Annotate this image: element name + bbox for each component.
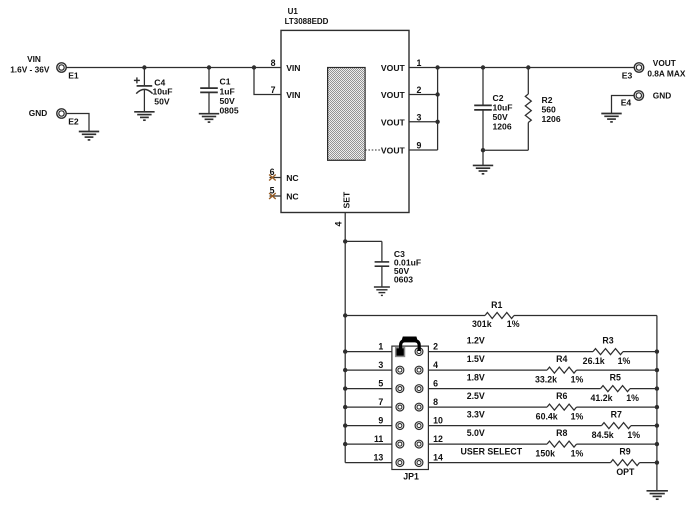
label C4 value: [153, 77, 173, 106]
svg-text:C1: C1: [220, 77, 231, 87]
svg-text:50V: 50V: [220, 96, 236, 106]
op-amp U1 LT3088EDD body: [281, 30, 409, 212]
svg-text:3: 3: [378, 360, 383, 370]
junction left bus row 3: [343, 386, 347, 390]
svg-text:LT3088EDD: LT3088EDD: [285, 17, 329, 26]
pin 6 NC stub: [270, 177, 282, 179]
svg-text:60.4k: 60.4k: [536, 412, 558, 422]
junction C2 bottom: [481, 148, 485, 152]
svg-text:3: 3: [417, 112, 422, 122]
svg-text:84.5k: 84.5k: [592, 430, 614, 440]
junction right bus row 3: [655, 386, 659, 390]
ground at C4: [134, 112, 154, 120]
connector JP1 body: [392, 346, 429, 469]
junction at R2 tap: [526, 65, 530, 69]
svg-text:VOUT: VOUT: [381, 63, 406, 73]
svg-text:50V: 50V: [493, 112, 509, 122]
svg-text:3.3V: 3.3V: [467, 410, 485, 420]
resistor R9: [611, 460, 640, 466]
wire row 6 right of R8: [577, 443, 657, 445]
wire SET net left bus: [344, 213, 346, 463]
svg-text:1: 1: [417, 58, 422, 68]
svg-text:USER SELECT: USER SELECT: [461, 447, 523, 457]
svg-text:9: 9: [378, 415, 383, 425]
wire row 7 left of R9: [428, 462, 610, 464]
junction pin1 bus: [435, 65, 439, 69]
svg-text:2: 2: [417, 85, 422, 95]
svg-text:1206: 1206: [493, 122, 512, 132]
junction left bus row 5: [343, 423, 347, 427]
svg-text:1%: 1%: [507, 319, 520, 329]
svg-text:11: 11: [374, 434, 383, 444]
svg-text:0.8A MAX: 0.8A MAX: [647, 69, 685, 79]
JP1 pin 6 socket: [415, 385, 423, 393]
junction right bus row 1: [655, 349, 659, 353]
label C3 value: [394, 249, 421, 285]
junction VIN pin branch: [252, 65, 256, 69]
capacitor C1: [200, 68, 218, 114]
resistor R7: [602, 423, 632, 429]
ground at C2: [473, 165, 493, 173]
capacitor C3: [375, 241, 390, 287]
svg-text:NC: NC: [286, 173, 298, 183]
svg-text:1%: 1%: [618, 356, 631, 366]
label C2 value: [493, 93, 513, 132]
junction left bus row 6: [343, 442, 347, 446]
wire VIN rail E1 to U1 pin 8: [66, 67, 281, 69]
wire to C3: [345, 240, 382, 242]
wire row 1 right of R3: [623, 351, 657, 353]
svg-text:R4: R4: [556, 354, 567, 364]
wire C2 R2 bottom tie: [483, 149, 528, 151]
svg-text:41.2k: 41.2k: [590, 393, 612, 403]
svg-text:2.5V: 2.5V: [467, 391, 485, 401]
junction pin3 bus: [435, 120, 439, 124]
svg-text:R1: R1: [491, 300, 502, 310]
svg-text:VIN: VIN: [286, 63, 300, 73]
svg-text:6: 6: [270, 167, 275, 177]
svg-text:14: 14: [433, 452, 443, 462]
wire R1 left segment: [345, 315, 485, 317]
pin 5 NC stub: [270, 195, 282, 197]
U1 exposed pad hatch: [328, 68, 366, 161]
junction right bus row 2: [655, 368, 659, 372]
terminal E3: [634, 63, 643, 72]
JP1 pin 3 socket: [396, 366, 404, 374]
svg-text:8: 8: [433, 397, 438, 407]
svg-text:R8: R8: [556, 428, 567, 438]
junction R1 tap: [343, 313, 347, 317]
svg-text:R6: R6: [556, 391, 567, 401]
svg-text:R9: R9: [619, 447, 630, 457]
ground at E4: [601, 114, 621, 122]
wire row 3 left of R5: [428, 388, 600, 390]
wire row 2 left of R4: [428, 369, 547, 371]
svg-text:1%: 1%: [571, 412, 584, 422]
svg-text:1.6V - 36V: 1.6V - 36V: [10, 65, 50, 75]
svg-text:5.0V: 5.0V: [467, 428, 485, 438]
JP1 pin 9 socket: [396, 422, 404, 430]
JP1 pin 5 socket: [396, 385, 404, 393]
junction right bus row 5: [655, 423, 659, 427]
junction right bus row 7: [655, 460, 659, 464]
svg-text:4: 4: [334, 222, 344, 227]
svg-text:6: 6: [433, 378, 438, 388]
terminal E4: [634, 91, 643, 100]
svg-text:VOUT: VOUT: [653, 58, 676, 68]
svg-text:50V: 50V: [154, 96, 170, 106]
no-connect X pin6: [269, 175, 276, 181]
junction right bus row 6: [655, 442, 659, 446]
wire row 2 right of R4: [577, 369, 657, 371]
wire branch to U1 pin 7: [254, 68, 281, 95]
wire right bus to ground: [656, 316, 658, 491]
svg-text:0805: 0805: [220, 105, 239, 115]
JP1 pin 1 square pad: [396, 348, 405, 357]
svg-text:4: 4: [433, 360, 438, 370]
svg-text:NC: NC: [286, 192, 298, 202]
wire JP1 row 7 left: [345, 462, 392, 464]
ground at C1: [199, 114, 219, 122]
resistor R2: [525, 68, 531, 151]
JP1 pin 13 socket: [396, 459, 404, 467]
wire row 7 right of R9: [640, 462, 657, 464]
junction at C1 tap: [207, 65, 211, 69]
svg-text:1%: 1%: [571, 375, 584, 385]
svg-text:R3: R3: [602, 336, 613, 346]
svg-text:E4: E4: [621, 98, 632, 108]
JP1 pin 10 socket: [415, 422, 423, 430]
resistor R6: [547, 404, 577, 410]
svg-text:1.2V: 1.2V: [467, 336, 485, 346]
svg-text:1%: 1%: [626, 393, 639, 403]
junction C3 tap: [343, 239, 347, 243]
terminal E2: [57, 109, 66, 118]
resistor R3: [593, 349, 623, 355]
svg-text:301k: 301k: [472, 319, 492, 329]
wire row 5 right of R7: [631, 425, 657, 427]
svg-text:R2: R2: [542, 95, 553, 105]
wire row 4 left of R6: [428, 406, 547, 408]
svg-text:0603: 0603: [394, 274, 413, 284]
wire VOUT pin bus: [437, 68, 439, 151]
label R2 value: [542, 95, 561, 124]
svg-text:8: 8: [271, 58, 276, 68]
svg-text:E3: E3: [622, 70, 633, 80]
svg-text:150k: 150k: [535, 449, 555, 459]
svg-text:5: 5: [270, 186, 275, 196]
svg-text:7: 7: [271, 85, 276, 95]
svg-text:R7: R7: [611, 410, 622, 420]
svg-text:12: 12: [433, 434, 443, 444]
wire JP1 row 5 left: [345, 425, 392, 427]
junction left bus row 4: [343, 405, 347, 409]
svg-text:10: 10: [433, 415, 443, 425]
capacitor C2: [474, 68, 492, 151]
svg-text:U1: U1: [288, 7, 299, 16]
svg-text:33.2k: 33.2k: [535, 375, 557, 385]
resistor R8: [547, 441, 577, 447]
wire E2 to ground: [66, 114, 89, 132]
svg-text:C2: C2: [493, 93, 504, 103]
pin 3 stub VOUT: [409, 121, 438, 123]
svg-text:5: 5: [378, 378, 383, 388]
wire row 1 left of R3: [428, 351, 593, 353]
svg-text:1%: 1%: [571, 449, 584, 459]
JP1 pin 2 socket: [415, 348, 423, 356]
svg-text:2: 2: [433, 341, 438, 351]
wire R1 right segment: [514, 315, 657, 317]
no-connect X pin5: [269, 193, 276, 199]
pin 2 stub VOUT: [409, 94, 438, 96]
svg-text:7: 7: [378, 397, 383, 407]
svg-text:SET: SET: [342, 191, 352, 208]
svg-text:9: 9: [417, 141, 422, 151]
junction left bus row 2: [343, 368, 347, 372]
junction left bus row 1: [343, 349, 347, 353]
ground at right bus: [647, 491, 668, 499]
label C1 value: [220, 77, 239, 116]
junction at C2 tap: [481, 65, 485, 69]
svg-text:1.5V: 1.5V: [467, 354, 485, 364]
JP1 pin 7 socket: [396, 403, 404, 411]
JP1 pin 11 socket: [396, 440, 404, 448]
svg-text:10uF: 10uF: [493, 103, 513, 113]
terminal E1: [57, 63, 66, 72]
jumper shunt on pins 1-2: [401, 337, 420, 352]
svg-text:GND: GND: [29, 108, 47, 118]
wire JP1 row 6 left: [345, 443, 392, 445]
wire row 3 right of R5: [630, 388, 657, 390]
svg-text:1%: 1%: [627, 430, 640, 440]
resistor R1: [485, 313, 514, 319]
pin 1 stub VOUT: [409, 67, 438, 69]
dotted tie exposed pad to VOUT pin9: [365, 149, 382, 151]
svg-text:E1: E1: [68, 70, 79, 80]
svg-text:VOUT: VOUT: [381, 146, 406, 156]
ground at E2: [79, 132, 99, 140]
JP1 pin 8 socket: [415, 403, 423, 411]
svg-text:VIN: VIN: [286, 90, 300, 100]
wire JP1 row 3 left: [345, 388, 392, 390]
svg-text:GND: GND: [653, 90, 671, 100]
JP1 pin 14 socket: [415, 459, 423, 467]
JP1 pin 12 socket: [415, 440, 423, 448]
wire E4 to ground: [612, 96, 635, 114]
resistor R5: [601, 386, 631, 392]
junction at C4 tap: [142, 65, 146, 69]
resistor R4: [547, 367, 577, 373]
svg-text:VIN: VIN: [27, 54, 41, 64]
wire row 6 left of R8: [428, 443, 547, 445]
JP1 pin 4 socket: [415, 366, 423, 374]
svg-text:OPT: OPT: [616, 467, 635, 477]
wire row 4 right of R6: [577, 406, 657, 408]
svg-text:26.1k: 26.1k: [583, 356, 605, 366]
svg-text:JP1: JP1: [403, 472, 419, 482]
svg-text:1: 1: [378, 341, 383, 351]
junction right bus row 4: [655, 405, 659, 409]
node VOUT output label: [647, 58, 685, 79]
svg-text:10uF: 10uF: [153, 87, 173, 97]
wire VOUT rail: [438, 67, 635, 69]
svg-text:VOUT: VOUT: [381, 117, 406, 127]
svg-text:E2: E2: [68, 116, 79, 126]
svg-text:1206: 1206: [542, 114, 561, 124]
svg-text:VOUT: VOUT: [381, 90, 406, 100]
svg-text:560: 560: [542, 105, 557, 115]
wire C2 to ground: [482, 150, 484, 165]
wire JP1 row 1 left: [345, 351, 392, 353]
capacitor C4: [134, 68, 153, 112]
wire JP1 row 4 left: [345, 406, 392, 408]
svg-text:13: 13: [374, 452, 384, 462]
pin 9 stub VOUT: [409, 149, 438, 151]
wire row 5 left of R7: [428, 425, 601, 427]
svg-text:1uF: 1uF: [220, 86, 235, 96]
svg-text:1.8V: 1.8V: [467, 373, 485, 383]
junction pin2 bus: [435, 92, 439, 96]
svg-text:R5: R5: [610, 373, 621, 383]
wire JP1 row 2 left: [345, 369, 392, 371]
ground at C3: [374, 287, 390, 295]
